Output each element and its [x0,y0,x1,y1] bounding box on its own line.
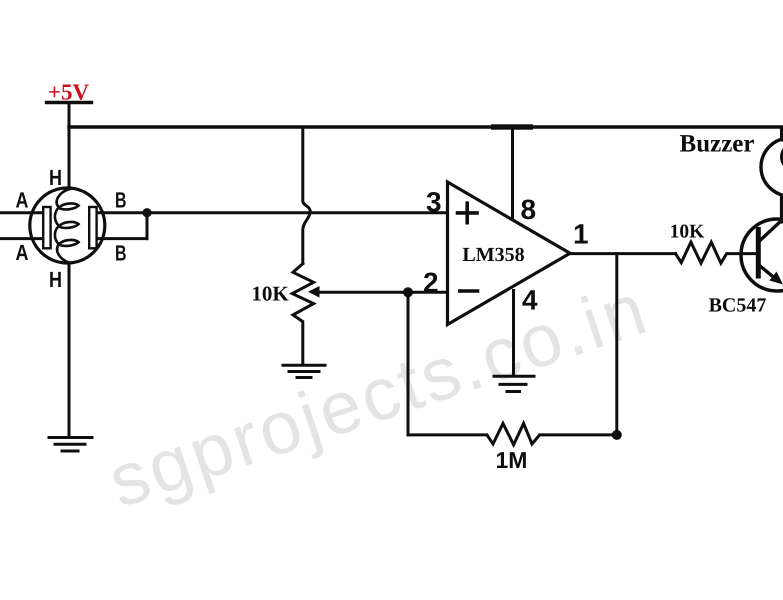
svg-text:10K: 10K [251,282,289,306]
svg-text:4: 4 [522,284,538,315]
svg-text:10K: 10K [670,221,706,242]
svg-text:3: 3 [426,186,442,217]
svg-text:Buzzer: Buzzer [680,131,755,158]
svg-text:BC547: BC547 [709,295,767,317]
svg-text:1M: 1M [496,447,528,473]
svg-text:H: H [49,165,62,190]
svg-text:B: B [115,240,127,265]
svg-text:2: 2 [423,267,439,298]
svg-text:B: B [115,188,127,213]
svg-text:LM358: LM358 [462,244,524,266]
svg-text:A: A [16,188,29,213]
svg-text:8: 8 [521,194,537,225]
svg-text:+5V: +5V [48,80,90,105]
svg-text:H: H [49,267,62,292]
svg-text:A: A [16,240,29,265]
svg-text:1: 1 [573,219,589,250]
